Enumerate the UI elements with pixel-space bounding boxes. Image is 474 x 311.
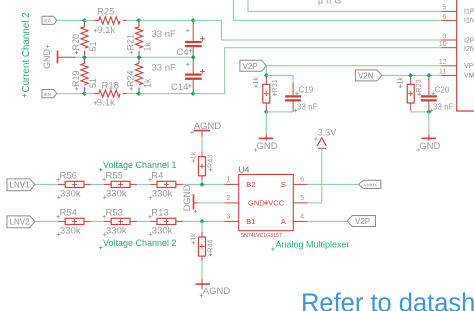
svg-text:R20: R20 <box>71 34 81 51</box>
node A2 junction <box>82 55 87 60</box>
svg-text:R55: R55 <box>106 171 123 182</box>
node F junction <box>408 73 413 78</box>
svg-text:SN74LVC1G3157: SN74LVC1G3157 <box>241 233 282 239</box>
svg-text:R18: R18 <box>102 80 119 91</box>
svg-text:1k: 1k <box>142 41 152 51</box>
wire node D to C19 top <box>266 75 293 83</box>
node D junction <box>264 73 269 78</box>
svg-text:R13: R13 <box>151 208 168 219</box>
wire GND row <box>75 56 193 58</box>
svg-text:33 nF: 33 nF <box>152 63 176 74</box>
svg-text:51: 51 <box>88 41 98 51</box>
svg-text:R24: R24 <box>126 70 136 87</box>
resistor R21 <box>135 23 142 56</box>
svg-text:5: 5 <box>300 195 304 202</box>
svg-text:VMUX: VMUX <box>364 183 377 188</box>
svg-text:V2P: V2P <box>243 62 258 71</box>
resistor R13 <box>150 218 183 224</box>
U4 pin 1 <box>225 183 239 185</box>
ground GND left <box>58 51 76 64</box>
capacitor C4 <box>185 21 202 56</box>
svg-text:AGND: AGND <box>203 286 231 297</box>
U4 pin names <box>246 180 286 226</box>
svg-text:C20: C20 <box>435 85 450 94</box>
wire node E to C19 bottom <box>266 111 293 113</box>
svg-text:R21: R21 <box>126 34 136 51</box>
svg-text:Voltage Channel 2: Voltage Channel 2 <box>103 238 177 248</box>
svg-text:GND: GND <box>257 141 278 152</box>
node G junction <box>427 73 432 78</box>
wire R53 to R13 <box>137 220 150 222</box>
svg-text:Current Channel 2: Current Channel 2 <box>21 12 32 92</box>
wire top to IC pin 6 <box>233 0 441 20</box>
svg-text:51: 51 <box>88 78 98 88</box>
resistor R43 <box>199 152 206 181</box>
connector tag V2P top <box>240 60 267 71</box>
IC pin 5 <box>441 10 457 12</box>
svg-text:VCC: VCC <box>268 198 284 207</box>
connector tag V2N <box>355 70 382 81</box>
ground AGND bottom <box>196 279 210 290</box>
capacitor C20 <box>421 77 437 112</box>
wire 3.3V to U4 VCC <box>308 148 322 203</box>
node A1 junction <box>82 18 87 23</box>
svg-text:VP: VP <box>464 63 474 70</box>
node C1 junction <box>191 18 196 23</box>
svg-text:R43: R43 <box>206 155 215 168</box>
resistor R19 <box>81 59 88 92</box>
wire R44 to AGND <box>201 261 203 279</box>
wire AGND to R43 <box>201 137 203 152</box>
wire V2P to IC pin 12 <box>266 65 441 67</box>
svg-text:3.3V: 3.3V <box>318 128 337 138</box>
wire node H down to GND <box>428 112 430 134</box>
ground GND under C20 <box>421 134 436 141</box>
wire R18 to node B3 <box>127 93 140 95</box>
wire R55 to R4 <box>137 183 150 185</box>
svg-text:4: 4 <box>300 214 304 221</box>
supply 3.3V <box>317 138 326 146</box>
wire node B1 to node C1 <box>139 19 193 21</box>
svg-text:GND: GND <box>248 198 265 207</box>
node B2 junction <box>137 55 142 60</box>
node A3 junction <box>82 91 87 96</box>
IC pin 9 <box>441 39 457 41</box>
svg-text:33 nF: 33 nF <box>297 103 318 112</box>
wire LNV2 to R54 <box>35 220 58 222</box>
wire node B3 to node C3 <box>139 93 193 95</box>
wire R25 to node B1 <box>127 19 140 21</box>
label: Current Channel 2 <box>21 12 32 92</box>
svg-text:I2P: I2P <box>464 37 474 44</box>
wire R23 bottom to node H <box>411 110 429 112</box>
resistor R25 <box>95 17 127 24</box>
svg-text:33 nF: 33 nF <box>433 103 454 112</box>
svg-text:6: 6 <box>442 14 446 21</box>
svg-text:1k: 1k <box>395 77 404 85</box>
resistor R44 <box>199 232 206 261</box>
svg-text:I1P: I1P <box>464 9 474 16</box>
resistor R24 <box>135 59 142 92</box>
U4 pin 4 <box>293 220 307 222</box>
capacitor C19 <box>285 83 301 112</box>
U4 pin 3 <box>225 220 239 222</box>
svg-text:11: 11 <box>439 69 446 76</box>
IC pin 10 <box>441 47 457 49</box>
wire DGND to U4 pin 2 <box>198 202 225 204</box>
ground AGND top <box>194 131 211 137</box>
svg-text:LNV1: LNV1 <box>10 181 31 190</box>
IC pin 6 <box>441 19 457 21</box>
svg-text:R31: R31 <box>270 79 279 92</box>
svg-text:GND: GND <box>42 49 52 70</box>
svg-text:R23: R23 <box>414 79 423 92</box>
svg-text:AGND: AGND <box>194 121 222 132</box>
node B1 junction <box>137 18 142 23</box>
svg-text:B1: B1 <box>246 217 255 226</box>
svg-text:µhG: µhG <box>318 0 344 5</box>
wire R31 bottom to node E <box>265 110 267 112</box>
svg-text:U4: U4 <box>239 165 250 175</box>
IC pin 11 <box>441 74 457 76</box>
svg-text:1k: 1k <box>188 151 197 159</box>
resistor R55 <box>104 181 137 187</box>
svg-text:330k: 330k <box>106 225 127 236</box>
svg-text:R25: R25 <box>97 6 114 17</box>
node H junction <box>427 110 432 115</box>
svg-text:VM: VM <box>464 73 474 80</box>
wire R54 to R53 <box>91 220 104 222</box>
svg-text:1k: 1k <box>188 233 197 241</box>
svg-text:GND: GND <box>419 141 440 152</box>
wire R13 to U4 pin 3 <box>183 220 225 222</box>
node B3 junction <box>137 91 142 96</box>
svg-text:LNV2: LNV2 <box>10 218 31 227</box>
connector tag LNV2 <box>7 216 35 228</box>
node C3 junction <box>191 91 196 96</box>
svg-text:V2P: V2P <box>355 217 370 226</box>
svg-text:12: 12 <box>439 59 447 66</box>
svg-text:6: 6 <box>300 177 304 184</box>
wire node C3 to IC pin 10 <box>193 48 441 94</box>
svg-text:R56: R56 <box>60 171 77 182</box>
resistor R31 <box>263 77 270 110</box>
wire node C1 to IC pin 9 <box>193 20 441 40</box>
svg-text:C19: C19 <box>299 85 314 94</box>
node C2 junction <box>191 55 196 60</box>
svg-text:R44: R44 <box>206 240 215 253</box>
multiplexer U4 body <box>239 175 294 231</box>
wire node E down to GND <box>265 112 267 134</box>
wire IEP to node A1 <box>57 19 85 21</box>
svg-text:Analog Multiplexer: Analog Multiplexer <box>276 239 350 249</box>
svg-text:R53: R53 <box>106 208 123 219</box>
resistor R53 <box>104 218 137 224</box>
svg-text:33 nF: 33 nF <box>152 29 176 40</box>
svg-text:1: 1 <box>227 177 231 184</box>
connector tag VMUX <box>359 180 381 188</box>
ground GND under R31 <box>259 134 274 141</box>
svg-text:R19: R19 <box>71 70 81 87</box>
resistor R23 <box>407 77 414 110</box>
wire R56 to R55 <box>91 183 104 185</box>
connector tag V2P right <box>347 216 375 227</box>
wire V2N to IC pin 11 <box>382 74 441 76</box>
svg-text:S: S <box>281 180 286 189</box>
wire IEN to node A3 <box>57 93 85 95</box>
U4 pin 6 <box>293 183 307 185</box>
wire V2P down to node D <box>265 66 267 76</box>
node E junction <box>264 110 269 115</box>
capacitor C14 <box>185 59 202 92</box>
svg-text:C4: C4 <box>177 47 189 58</box>
wire R43 to node J1 <box>201 180 203 184</box>
svg-text:9.1k: 9.1k <box>97 25 115 36</box>
resistor R20 <box>81 23 88 56</box>
svg-text:1k: 1k <box>251 77 260 85</box>
connector tag LNV1 <box>7 179 35 191</box>
svg-text:V2N: V2N <box>358 71 374 80</box>
svg-text:DGND: DGND <box>182 184 192 211</box>
svg-text:IEP: IEP <box>44 19 51 24</box>
node J1 junction <box>200 182 205 187</box>
svg-text:9: 9 <box>442 33 446 40</box>
wire node A3 to R18 <box>85 93 95 95</box>
svg-text:330k: 330k <box>106 188 127 199</box>
wire LNV1 to R56 <box>35 183 58 185</box>
svg-text:Refer to datash: Refer to datash <box>301 290 474 311</box>
svg-text:5: 5 <box>442 5 446 12</box>
svg-text:2: 2 <box>227 195 231 202</box>
svg-text:C14: C14 <box>171 82 188 93</box>
svg-text:IEN: IEN <box>44 92 52 97</box>
svg-text:R54: R54 <box>60 208 77 219</box>
svg-text:I2N: I2N <box>464 46 474 53</box>
connector tag IEP <box>42 16 57 24</box>
ground DGND <box>194 194 198 209</box>
svg-text:9.1k: 9.1k <box>97 97 115 108</box>
svg-text:330k: 330k <box>60 188 81 199</box>
IC pin 12 <box>441 65 457 67</box>
wire top to IC pin 5 <box>248 0 441 11</box>
resistor R54 <box>58 218 91 224</box>
U4 pin 2 <box>225 202 239 204</box>
resistor R4 <box>150 181 183 187</box>
svg-text:10: 10 <box>439 41 447 48</box>
connector tag IEN <box>42 90 57 98</box>
svg-text:1k: 1k <box>142 78 152 88</box>
svg-text:330k: 330k <box>152 225 173 236</box>
svg-text:I1N: I1N <box>464 17 474 24</box>
wire U4 pin 4 to V2P <box>308 220 348 222</box>
svg-text:B2: B2 <box>246 180 255 189</box>
IC body right edge <box>457 0 474 111</box>
svg-text:330k: 330k <box>60 225 81 236</box>
svg-text:330k: 330k <box>152 188 173 199</box>
wire U4 pin 6 to VMUX <box>308 183 359 185</box>
svg-text:Voltage Channel 1: Voltage Channel 1 <box>103 160 177 170</box>
U4 pin 5 <box>293 202 307 204</box>
node J2 junction <box>200 219 205 224</box>
resistor R56 <box>58 181 91 187</box>
wire R4 to U4 pin 1 <box>183 183 225 185</box>
resistor R18 <box>95 90 127 97</box>
svg-text:R4: R4 <box>151 171 163 182</box>
wire node A1 to R25 <box>85 19 95 21</box>
svg-text:A: A <box>281 217 286 226</box>
wire node J2 to R44 <box>201 221 203 231</box>
svg-text:3: 3 <box>227 214 231 221</box>
